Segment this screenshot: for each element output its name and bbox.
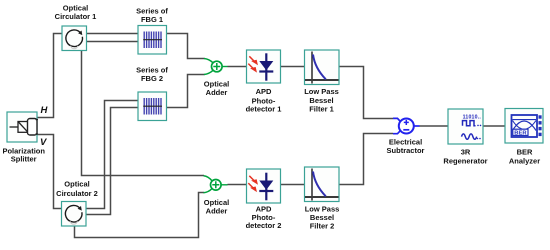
svg-text:APD: APD xyxy=(256,87,272,96)
wire adder 2 to APD 2 xyxy=(228,184,247,186)
label low pass bessel filter 1 xyxy=(304,87,339,114)
label optical adder 2 xyxy=(204,198,229,215)
svg-text:BER: BER xyxy=(517,148,533,157)
series of FBG 2 xyxy=(138,92,167,121)
svg-text:FBG 1: FBG 1 xyxy=(141,15,163,24)
svg-text:Splitter: Splitter xyxy=(11,155,37,164)
svg-text:11010..: 11010.. xyxy=(463,114,482,120)
wire 3R regenerator to BER analyzer xyxy=(483,125,505,127)
wire filter 2 to subtractor bottom input xyxy=(339,134,393,185)
series of FBG 1 xyxy=(138,26,167,55)
wire circulator 1 port3 to optical adder 2 top input xyxy=(82,51,205,176)
3R regenerator xyxy=(448,109,483,144)
wire FBG 2 output to optical adder 1 bottom input xyxy=(167,75,205,108)
wire APD 1 to low pass filter 1 xyxy=(281,66,305,68)
label optical circulator 2 xyxy=(56,179,98,197)
label 3R regenerator xyxy=(443,148,487,166)
svg-text:Optical: Optical xyxy=(64,179,89,188)
label optical adder 1 xyxy=(204,80,229,97)
svg-text:Filter 2: Filter 2 xyxy=(310,221,335,230)
svg-text:Circulator 1: Circulator 1 xyxy=(55,12,97,21)
svg-text:Subtractor: Subtractor xyxy=(387,146,425,155)
electrical subtractor S1 xyxy=(393,118,420,133)
svg-text:Analyzer: Analyzer xyxy=(509,157,540,166)
polarization splitter xyxy=(7,112,38,142)
svg-text:Circulator 2: Circulator 2 xyxy=(56,189,98,198)
svg-text:Adder: Adder xyxy=(206,206,228,215)
low pass bessel filter F2 xyxy=(305,167,340,202)
wire H path: splitter H output to circulator 1 input xyxy=(36,34,62,118)
wire circulator 2 port3 to optical adder 2 bottom input xyxy=(75,193,205,238)
wire adder 1 to APD 1 xyxy=(228,66,247,68)
svg-text:H: H xyxy=(41,105,49,116)
svg-text:FBG 2: FBG 2 xyxy=(141,74,163,83)
APD photodetector U1 xyxy=(247,50,281,83)
svg-text:detector 1: detector 1 xyxy=(246,105,282,114)
optical circulator C2 xyxy=(62,202,87,227)
wire circulator 2 to FBG 2 lower xyxy=(87,108,139,215)
svg-text:Series of: Series of xyxy=(136,7,168,16)
label APD photodetector 1 xyxy=(246,87,282,114)
wire circulator 2 to FBG 2 upper xyxy=(87,101,139,209)
wire subtractor to 3R regenerator xyxy=(420,125,449,127)
svg-text:3R: 3R xyxy=(461,148,471,157)
label BER analyzer xyxy=(509,148,540,166)
label polarization splitter xyxy=(2,146,45,163)
svg-text:Filter 1: Filter 1 xyxy=(309,105,334,114)
wire APD 2 to low pass filter 2 xyxy=(281,184,305,186)
label electrical subtractor xyxy=(387,138,425,155)
low pass bessel filter F1 xyxy=(305,50,340,85)
svg-text:BER: BER xyxy=(514,131,527,137)
wire FBG 1 output to optical adder 1 top input xyxy=(167,34,205,59)
svg-text:detector 2: detector 2 xyxy=(246,221,282,230)
APD photodetector U2 xyxy=(247,169,281,203)
optical adder A2 xyxy=(204,176,228,193)
label low pass bessel filter 2 xyxy=(305,205,340,231)
optical adder A1 xyxy=(204,59,228,75)
svg-text:Regenerator: Regenerator xyxy=(443,157,487,166)
wire circulator 1 to FBG 1 upper xyxy=(87,33,139,35)
label series of FBG 1 xyxy=(136,7,168,25)
optical circulator C1 xyxy=(62,26,87,51)
svg-text:Low Pass: Low Pass xyxy=(304,87,339,96)
label optical circulator 1 xyxy=(55,4,97,22)
BER analyzer xyxy=(505,109,543,144)
wire V path: splitter V output to circulator 2 input xyxy=(36,135,62,209)
label series of FBG 2 xyxy=(136,66,168,83)
label APD photodetector 2 xyxy=(246,205,282,231)
svg-text:Adder: Adder xyxy=(206,88,228,97)
wire filter 1 to subtractor top input xyxy=(339,67,393,119)
wire circulator 1 to FBG 1 lower xyxy=(87,41,139,43)
